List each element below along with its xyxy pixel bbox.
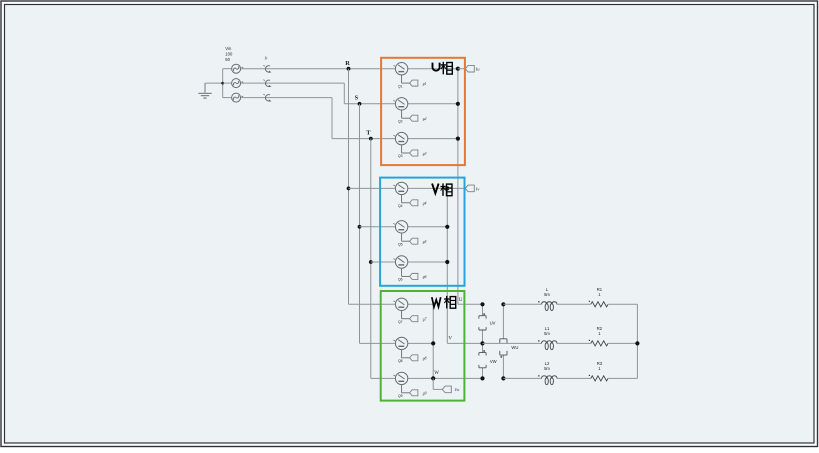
svg-text:g4: g4 bbox=[423, 202, 427, 206]
svg-text:5m: 5m bbox=[544, 366, 550, 371]
node R bbox=[345, 60, 350, 71]
svg-text:g7: g7 bbox=[423, 318, 427, 322]
svg-text:V: V bbox=[448, 337, 452, 342]
svg-text:Q9: Q9 bbox=[398, 394, 403, 398]
current flag Iu bbox=[458, 65, 480, 72]
wire row T bbox=[241, 98, 396, 139]
wire Q1 to U node bbox=[408, 68, 458, 70]
node W3 bbox=[431, 376, 435, 380]
wire source bus bbox=[222, 69, 224, 98]
svg-text:Q5: Q5 bbox=[398, 242, 403, 246]
resistor R3 bbox=[589, 361, 608, 381]
wire Q4 to V node bbox=[408, 187, 448, 189]
box V phase (blue) bbox=[380, 178, 464, 286]
svg-text:5m: 5m bbox=[544, 331, 550, 336]
ground bbox=[198, 83, 211, 98]
label V phase bbox=[432, 183, 452, 196]
svg-text:g9: g9 bbox=[423, 392, 427, 396]
node probe VW-W bbox=[480, 376, 484, 380]
wire Q9 to W node bbox=[408, 377, 433, 379]
wire bbox=[557, 303, 591, 305]
switch Q3 bbox=[393, 132, 409, 153]
wire row R bbox=[241, 68, 396, 70]
svg-text:g1: g1 bbox=[423, 82, 427, 86]
svg-text:100: 100 bbox=[225, 52, 233, 57]
svg-text:g3: g3 bbox=[423, 152, 427, 156]
inductor L bbox=[538, 287, 557, 311]
inductor L1 bbox=[538, 326, 557, 350]
wire V box row2 bbox=[360, 226, 396, 228]
inductor L2 bbox=[538, 361, 557, 385]
voltmeter VW bbox=[479, 350, 497, 368]
node probe WU bottom bbox=[501, 376, 505, 380]
wire U output vertical bbox=[458, 69, 483, 305]
wire W box row3 bbox=[371, 377, 396, 379]
svg-text:g5: g5 bbox=[423, 240, 427, 244]
gate flag g1 bbox=[410, 80, 427, 86]
node V1 bbox=[445, 186, 449, 190]
svg-text:g2: g2 bbox=[423, 117, 427, 121]
wire Q3 to U node bbox=[408, 138, 458, 140]
gate flag g4 bbox=[410, 200, 427, 206]
svg-text:Q6: Q6 bbox=[398, 278, 403, 282]
current flag Ir bbox=[263, 57, 271, 73]
svg-text:Iw: Iw bbox=[454, 387, 459, 392]
switch Q8 bbox=[393, 337, 409, 358]
ac source Vs2 bbox=[232, 79, 244, 88]
node right bus bbox=[635, 341, 639, 345]
wire bus S bbox=[359, 104, 361, 344]
svg-text:VW: VW bbox=[490, 359, 497, 364]
gate flag g6 bbox=[410, 273, 427, 279]
svg-text:W: W bbox=[434, 371, 439, 376]
wire Q5 to V node bbox=[408, 226, 448, 228]
wire W box row2 bbox=[360, 342, 396, 344]
gate flag g2 bbox=[410, 115, 427, 121]
current flag Iw bbox=[433, 378, 459, 392]
svg-text:Vin: Vin bbox=[225, 46, 232, 51]
wire U row to load bbox=[503, 303, 541, 305]
wire Q8 to W node bbox=[408, 342, 433, 344]
svg-text:Ir: Ir bbox=[264, 57, 268, 61]
svg-text:Q4: Q4 bbox=[398, 204, 403, 208]
node U2 bbox=[456, 102, 460, 106]
switch Q2 bbox=[393, 98, 409, 119]
node T bbox=[366, 129, 372, 140]
wire bbox=[557, 377, 591, 379]
svg-text:g6: g6 bbox=[423, 275, 427, 279]
switch Q6 bbox=[393, 256, 409, 277]
switch Q1 bbox=[393, 62, 409, 83]
node probe U-UV bbox=[480, 302, 484, 306]
svg-text:S: S bbox=[355, 95, 359, 102]
svg-text:T: T bbox=[366, 129, 371, 136]
node source bus junction bbox=[221, 82, 224, 85]
wire Q7 to W node bbox=[408, 303, 433, 305]
svg-text:g8: g8 bbox=[423, 357, 427, 361]
svg-text:50: 50 bbox=[225, 57, 230, 62]
current flag Is bbox=[263, 80, 271, 87]
switch Q5 bbox=[393, 221, 409, 242]
wire Q6 to V node bbox=[408, 261, 448, 263]
node W2 bbox=[431, 341, 435, 345]
node S-V junction bbox=[358, 225, 362, 229]
wire Q2 to U node bbox=[408, 103, 458, 105]
wire bus R bbox=[348, 69, 350, 305]
gate flag g3 bbox=[410, 150, 427, 156]
wire V box row3 bbox=[371, 261, 396, 263]
wire bbox=[608, 303, 637, 305]
current flag Iv bbox=[447, 185, 479, 192]
wire V output vertical bbox=[447, 188, 482, 343]
node V3 bbox=[445, 260, 449, 264]
svg-text:5m: 5m bbox=[544, 292, 550, 297]
svg-text:R: R bbox=[345, 60, 350, 67]
wire row S bbox=[241, 83, 396, 104]
svg-text:Q2: Q2 bbox=[398, 119, 403, 123]
voltmeter UV bbox=[479, 313, 496, 330]
node probe UV-VW bbox=[480, 341, 484, 345]
label U phase bbox=[433, 62, 453, 75]
svg-text:UV: UV bbox=[490, 320, 496, 325]
wire bbox=[223, 68, 232, 70]
node R-V junction bbox=[347, 187, 351, 191]
wire V box row1 bbox=[349, 187, 396, 189]
wire W row to load bbox=[503, 377, 541, 379]
gate flag g8 bbox=[410, 355, 427, 361]
switch Q7 bbox=[393, 298, 409, 319]
resistor R2 bbox=[589, 326, 608, 346]
node U3 bbox=[456, 137, 460, 141]
svg-text:Q8: Q8 bbox=[398, 359, 403, 363]
current flag It bbox=[263, 94, 271, 101]
svg-text:Q1: Q1 bbox=[398, 84, 403, 88]
wire bbox=[608, 342, 637, 344]
wire bbox=[557, 342, 591, 344]
svg-text:Iu: Iu bbox=[475, 67, 480, 72]
node T-V junction bbox=[369, 260, 373, 264]
ac source Vs3 bbox=[232, 93, 244, 102]
wire right bus bbox=[636, 304, 638, 378]
svg-text:Q3: Q3 bbox=[398, 154, 403, 158]
gate flag g9 bbox=[410, 390, 427, 396]
wire W box row1 bbox=[349, 303, 396, 305]
node probe WU top bbox=[501, 302, 505, 306]
wire bbox=[223, 82, 232, 84]
svg-text:Iv: Iv bbox=[475, 186, 479, 191]
switch Q9 bbox=[393, 372, 409, 393]
node S bbox=[355, 95, 362, 106]
box U phase (orange) bbox=[381, 58, 465, 165]
wire probe column WU bbox=[502, 304, 504, 378]
wire bbox=[223, 97, 232, 99]
wire V row to load bbox=[483, 342, 542, 344]
svg-text:U: U bbox=[459, 298, 463, 303]
label W phase bbox=[432, 296, 456, 309]
resistor R1 bbox=[589, 287, 608, 307]
label Vin 100 50 bbox=[225, 46, 233, 62]
svg-text:WU: WU bbox=[511, 345, 518, 350]
gate flag g7 bbox=[410, 316, 427, 322]
svg-text:Q7: Q7 bbox=[398, 320, 403, 324]
wire bbox=[608, 377, 637, 379]
gate flag g5 bbox=[410, 238, 427, 244]
switch Q4 bbox=[393, 182, 409, 203]
wire probe column UV/VW bbox=[482, 304, 484, 378]
node U1 bbox=[456, 67, 460, 71]
wire W output vertical bbox=[433, 304, 482, 378]
box W phase (green) bbox=[381, 291, 465, 401]
wire bus T bbox=[370, 139, 372, 379]
voltmeter WU bbox=[500, 339, 519, 358]
node V2 bbox=[445, 225, 449, 229]
ac source Vs1 bbox=[232, 64, 244, 73]
wire ground to source bus bbox=[205, 82, 223, 84]
